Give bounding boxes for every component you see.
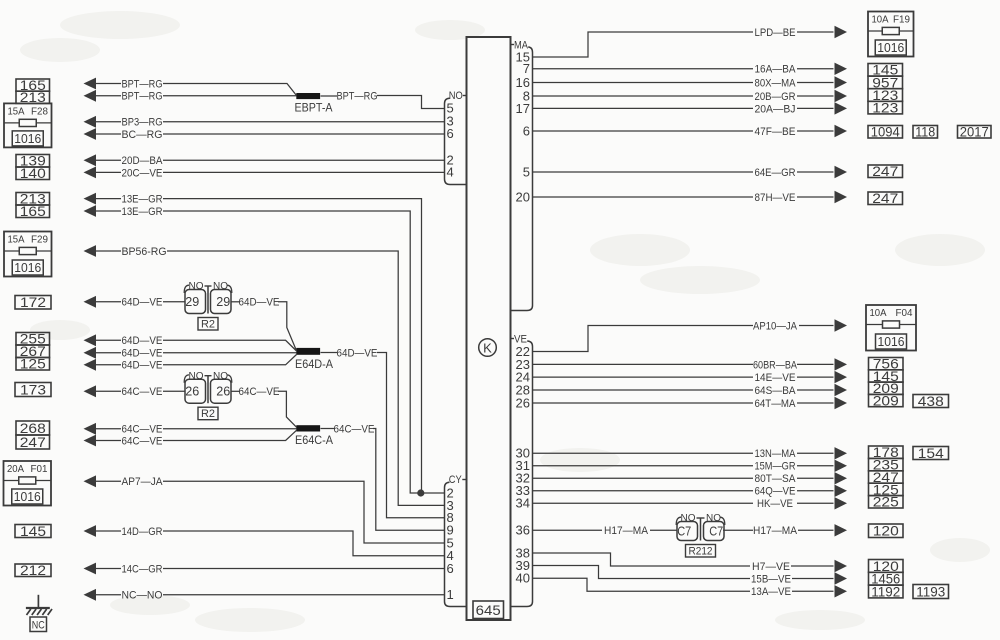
wire 64D-VE splice to pin8 — [321, 352, 338, 354]
wire 64Q-VE pin33 — [533, 490, 754, 492]
wire 64D-VE b — [84, 347, 97, 359]
wire 20C-VE — [84, 167, 97, 179]
svg-text:6: 6 — [447, 126, 454, 141]
wire 14E-VE pin24 — [533, 376, 754, 378]
connector 178 — [869, 446, 904, 458]
svg-text:34: 34 — [516, 496, 530, 511]
svg-text:123: 123 — [872, 100, 898, 116]
svg-text:26: 26 — [185, 384, 199, 399]
svg-text:20: 20 — [516, 189, 530, 204]
svg-text:15A: 15A — [8, 234, 25, 246]
ground NC symbol — [37, 595, 39, 608]
svg-text:64Q—VE: 64Q—VE — [755, 486, 796, 498]
connector 145Rb — [869, 370, 904, 382]
svg-text:64C—VE: 64C—VE — [239, 386, 280, 398]
fuse F29 — [4, 232, 52, 277]
svg-text:20A—BJ: 20A—BJ — [755, 103, 796, 115]
wire 60BR-BA pin23 — [533, 363, 754, 365]
svg-text:29: 29 — [185, 294, 199, 309]
svg-text:64S—BA: 64S—BA — [755, 385, 797, 397]
svg-text:36: 36 — [516, 523, 530, 538]
svg-text:R2: R2 — [201, 408, 215, 420]
svg-text:247: 247 — [872, 163, 898, 179]
svg-text:13E—GR: 13E—GR — [122, 194, 163, 206]
svg-text:2017: 2017 — [960, 124, 989, 140]
wire 64D-VE c — [84, 359, 97, 371]
wire H17-MA R212 out — [723, 529, 753, 531]
svg-text:26: 26 — [516, 395, 530, 410]
svg-text:F04: F04 — [896, 307, 913, 319]
fuse F19 — [868, 12, 914, 57]
connector 1094 — [868, 126, 903, 139]
svg-text:1016: 1016 — [878, 334, 905, 349]
connector 247b — [868, 192, 903, 205]
wire 14D-GR — [84, 525, 97, 537]
junction dot — [417, 489, 424, 496]
connector 145L — [15, 525, 51, 538]
wire BC-RG — [84, 128, 97, 140]
svg-text:87H—VE: 87H—VE — [755, 192, 796, 204]
svg-text:NC—NO: NC—NO — [122, 590, 163, 602]
wire 87H-VE pin20 — [533, 196, 754, 198]
svg-text:H17—MA: H17—MA — [604, 525, 649, 537]
wire NC-NO — [84, 589, 97, 601]
svg-text:225: 225 — [873, 494, 899, 510]
svg-text:1193: 1193 — [916, 583, 945, 599]
svg-text:F29: F29 — [31, 234, 48, 246]
svg-text:BPT—RG: BPT—RG — [337, 90, 378, 102]
svg-text:26: 26 — [216, 384, 230, 399]
svg-text:47F—BE: 47F—BE — [755, 126, 796, 138]
connector 247L — [16, 435, 50, 449]
connector 957 — [868, 76, 903, 89]
svg-text:64D—VE: 64D—VE — [239, 297, 280, 309]
wire 64D-VE relay out to splice — [231, 301, 240, 303]
connector VE bracket — [511, 338, 515, 340]
svg-text:F01: F01 — [31, 463, 48, 475]
svg-text:438: 438 — [918, 393, 944, 409]
svg-text:F28: F28 — [31, 105, 48, 117]
svg-text:14C—GR: 14C—GR — [122, 563, 163, 575]
svg-text:E64C-A: E64C-A — [295, 435, 333, 447]
wire 64E-GR pin5 — [533, 171, 754, 173]
svg-text:80X—MA: 80X—MA — [755, 77, 797, 89]
svg-text:CY: CY — [449, 474, 463, 486]
svg-text:80T—SA: 80T—SA — [755, 473, 797, 485]
connector 209a — [869, 382, 904, 394]
svg-text:13N—MA: 13N—MA — [755, 448, 797, 460]
connector 125R — [869, 483, 904, 495]
wire 13E-GR 1 — [84, 193, 97, 205]
svg-text:120: 120 — [873, 523, 899, 539]
svg-text:20A: 20A — [7, 463, 24, 475]
svg-text:EBPT-A: EBPT-A — [295, 103, 333, 115]
connector CY bracket — [445, 482, 467, 606]
connector 1193 — [913, 585, 949, 599]
svg-text:15A: 15A — [8, 105, 25, 117]
connector 2017 — [958, 126, 992, 139]
fuse F28 — [4, 103, 52, 147]
connector MA bracket — [511, 44, 515, 46]
wire 13N-MA pin30 — [533, 452, 754, 454]
svg-text:29: 29 — [216, 294, 230, 309]
connector 255 — [16, 333, 50, 346]
svg-text:10A: 10A — [872, 14, 889, 26]
wire 64C-VE splice to pin9 — [321, 428, 336, 430]
svg-text:247: 247 — [872, 190, 898, 206]
svg-text:64C—VE: 64C—VE — [122, 424, 163, 436]
connector 173 — [15, 383, 51, 397]
wire 14C-GR — [84, 563, 97, 575]
connector 154 — [913, 447, 949, 460]
wire H17-MA pin36 to R212 — [533, 529, 603, 531]
symbol K circled — [479, 339, 497, 357]
svg-text:10A: 10A — [870, 307, 887, 319]
wire BPT-RG 2 — [84, 90, 97, 102]
wire LPD-BE pin15 — [533, 32, 754, 57]
svg-text:64D—VE: 64D—VE — [122, 348, 163, 360]
relay R212 pins C7 — [676, 517, 681, 525]
wire AP7-JA — [84, 475, 97, 487]
connector 1192 — [869, 585, 904, 598]
fuse F04 — [866, 305, 916, 351]
wire H7-VE pin38 — [533, 553, 751, 566]
svg-text:H17—MA: H17—MA — [753, 525, 798, 537]
connector 213 — [16, 91, 50, 103]
wire HK-VE pin34 — [533, 502, 754, 504]
svg-text:6: 6 — [523, 123, 530, 138]
connector 235 — [869, 458, 904, 470]
relay R2 pins 29 — [184, 285, 189, 293]
svg-text:64D—VE: 64D—VE — [122, 360, 163, 372]
svg-text:20C—VE: 20C—VE — [122, 167, 163, 179]
svg-text:64T—MA: 64T—MA — [755, 398, 797, 410]
wire 20A-BJ pin17 — [533, 107, 754, 109]
wire 64C-VE relay out to splice — [231, 390, 240, 392]
svg-text:R212: R212 — [689, 546, 713, 558]
svg-text:1094: 1094 — [871, 124, 900, 140]
wire BPT-RG 1 — [84, 78, 97, 90]
svg-text:145: 145 — [20, 523, 46, 539]
svg-text:64E—GR: 64E—GR — [755, 167, 796, 179]
fuse F01 — [4, 461, 52, 506]
wire BP3-RG — [84, 116, 97, 128]
connector 123b — [868, 101, 903, 114]
svg-text:17: 17 — [516, 101, 530, 116]
connector 247c — [869, 471, 904, 483]
wire 64D-VE a — [84, 334, 97, 346]
connector 267 — [16, 345, 50, 358]
wire 64C-VE b — [84, 435, 97, 447]
connector 438 — [913, 395, 949, 408]
wire 80X-MA pin16 — [533, 82, 754, 84]
connector 225 — [869, 496, 904, 508]
svg-text:14E—VE: 14E—VE — [755, 372, 796, 384]
connector NO bracket — [445, 98, 467, 184]
svg-text:1: 1 — [447, 587, 454, 602]
svg-text:HK—VE: HK—VE — [757, 498, 793, 510]
svg-text:154: 154 — [918, 445, 944, 461]
svg-text:K: K — [483, 340, 492, 355]
svg-text:64D—VE: 64D—VE — [337, 347, 378, 359]
svg-text:140: 140 — [20, 165, 46, 181]
svg-text:AP7—JA: AP7—JA — [122, 476, 164, 488]
svg-text:C7: C7 — [677, 523, 691, 538]
connector 172 — [15, 296, 51, 310]
connector 247a — [868, 165, 903, 178]
svg-text:C7: C7 — [709, 523, 723, 538]
svg-text:BPT—RG: BPT—RG — [122, 78, 163, 90]
wire 47F-BE pin6 — [533, 130, 754, 132]
svg-text:645: 645 — [476, 602, 501, 618]
wire BP56-RG — [84, 245, 97, 257]
svg-text:1016: 1016 — [14, 260, 41, 275]
svg-text:14D—GR: 14D—GR — [122, 526, 163, 538]
svg-text:1016: 1016 — [14, 489, 41, 504]
wire 15M-GR pin31 — [533, 465, 754, 467]
svg-text:AP10—JA: AP10—JA — [753, 320, 798, 332]
connector 125 — [16, 358, 50, 371]
svg-text:BP56-RG: BP56-RG — [122, 246, 167, 258]
wire 64S-BA pin28 — [533, 389, 754, 391]
connector 145R — [868, 64, 903, 77]
svg-text:R2: R2 — [201, 319, 215, 331]
svg-text:13A—VE: 13A—VE — [751, 586, 791, 598]
connector 118 — [913, 126, 938, 139]
connector 1456 — [869, 572, 904, 585]
connector 140 — [16, 167, 50, 180]
connector 123a — [868, 89, 903, 102]
relay R2 pins 26 — [184, 375, 189, 383]
splice E64C-A — [296, 425, 320, 431]
svg-text:20B—GR: 20B—GR — [755, 91, 796, 103]
connector 165 — [16, 79, 50, 91]
wire 15B-VE pin39 — [533, 566, 751, 579]
svg-text:BC—RG: BC—RG — [122, 129, 163, 141]
svg-text:NC: NC — [32, 620, 45, 632]
wire 20D-BA — [84, 154, 97, 166]
svg-text:60BR—BA: 60BR—BA — [753, 359, 798, 371]
svg-text:173: 173 — [20, 381, 46, 397]
svg-text:209: 209 — [873, 392, 899, 408]
svg-text:125: 125 — [20, 356, 46, 372]
svg-text:LPD—BE: LPD—BE — [755, 27, 796, 39]
svg-text:40: 40 — [516, 571, 530, 586]
wire 16A-BA pin7 — [533, 68, 754, 70]
svg-text:118: 118 — [915, 124, 935, 140]
connector 120b — [869, 560, 904, 573]
connector 139 — [16, 155, 50, 168]
wire 64T-MA pin26 — [533, 402, 754, 404]
connector 756 — [869, 358, 904, 370]
connector 268 — [16, 421, 50, 435]
svg-text:172: 172 — [20, 294, 46, 310]
splice EBPT-A — [296, 93, 320, 99]
wire BPT-RG to pin5 — [321, 95, 338, 97]
svg-text:247: 247 — [20, 434, 46, 450]
svg-text:20D—BA: 20D—BA — [122, 155, 164, 167]
svg-text:1192: 1192 — [871, 583, 900, 599]
svg-text:64D—VE: 64D—VE — [122, 335, 163, 347]
svg-text:64C—VE: 64C—VE — [334, 423, 375, 435]
svg-text:BP3—RG: BP3—RG — [122, 117, 163, 129]
wire 20B-GR pin8 — [533, 95, 754, 97]
svg-text:15B—VE: 15B—VE — [751, 573, 791, 585]
svg-text:H7—VE: H7—VE — [752, 561, 790, 573]
svg-text:4: 4 — [447, 165, 454, 180]
svg-text:F19: F19 — [893, 14, 910, 26]
label 645 box — [473, 601, 504, 619]
svg-text:64C—VE: 64C—VE — [122, 435, 163, 447]
wire 13A-VE pin40 — [533, 578, 751, 591]
connector 165b — [16, 205, 50, 218]
svg-text:64D—VE: 64D—VE — [122, 297, 163, 309]
ECU unit 645 main box — [467, 37, 511, 620]
svg-text:6: 6 — [447, 561, 454, 576]
svg-text:E64D-A: E64D-A — [295, 359, 333, 371]
svg-text:212: 212 — [20, 562, 46, 578]
svg-text:15M—GR: 15M—GR — [755, 461, 796, 473]
wire 13E-GR 2 — [84, 205, 97, 217]
wire 64C-VE a — [84, 423, 97, 435]
connector 213b — [16, 193, 50, 206]
svg-text:165: 165 — [20, 203, 46, 219]
svg-text:5: 5 — [523, 164, 530, 179]
wire 64D-VE relay feed — [84, 296, 97, 308]
svg-text:13E—GR: 13E—GR — [122, 206, 163, 218]
wire 80T-SA pin32 — [533, 477, 754, 479]
connector 209b — [869, 394, 904, 406]
wire AP10-JA pin22 — [533, 326, 754, 352]
svg-text:1016: 1016 — [877, 40, 904, 55]
connector 120a — [869, 524, 904, 538]
svg-text:64C—VE: 64C—VE — [122, 386, 163, 398]
connector 212 — [15, 564, 51, 577]
svg-text:1016: 1016 — [14, 131, 41, 146]
splice E64D-A — [296, 348, 320, 355]
wire 64C-VE relay feed — [84, 385, 97, 397]
svg-text:16A—BA: 16A—BA — [755, 64, 797, 76]
svg-text:BPT—RG: BPT—RG — [122, 91, 163, 103]
